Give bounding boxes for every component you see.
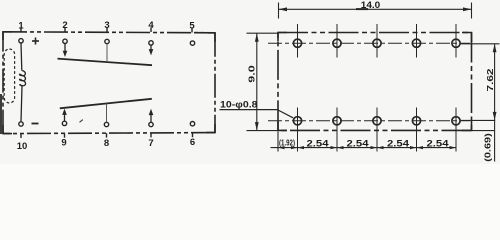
pin 9 terminal [62, 121, 66, 125]
svg-text:10-φ0.8: 10-φ0.8 [220, 99, 258, 109]
hole H4 [412, 39, 420, 47]
svg-text:2: 2 [62, 20, 67, 31]
coil polarity plus [32, 38, 39, 45]
dim 14.0 extension lines [278, 3, 280, 19]
hole H3 [373, 39, 381, 47]
svg-text:8: 8 [104, 138, 109, 149]
pin tick 10 [20, 134, 22, 138]
pin 5 terminal [190, 41, 194, 45]
bottom dim line [271, 147, 457, 149]
svg-text:4: 4 [148, 20, 154, 31]
pin tick 4 [150, 28, 152, 33]
hole H10 [452, 117, 460, 125]
svg-text:9.0: 9.0 [247, 65, 257, 83]
dim 14.0 line [279, 8, 472, 10]
hole H2 [333, 39, 341, 47]
arrow at 456 [450, 146, 457, 149]
dim 9.0 extension lines [247, 32, 279, 34]
common wire pin 3 [106, 44, 108, 62]
svg-text:6: 6 [190, 137, 195, 148]
pin 10 terminal [19, 122, 23, 126]
svg-text:7.62: 7.62 [485, 68, 495, 91]
relay case outline (schematic box, phantom line) [3, 32, 215, 134]
pin 4 terminal [149, 41, 153, 45]
coil polarity minus [32, 123, 39, 125]
svg-text:2.54: 2.54 [427, 138, 449, 148]
svg-text:14.0: 14.0 [361, 0, 381, 10]
svg-text:3: 3 [104, 20, 109, 31]
pin 3 terminal [105, 39, 109, 43]
scan shadow strip bottom-left [0, 94, 2, 134]
dim 9.0 line [256, 33, 258, 130]
outline corner caps [3, 32, 472, 134]
hole H5 [452, 39, 460, 47]
pin tick 6 [192, 133, 194, 137]
pin tick 2 [64, 28, 66, 33]
arrows at 416.5 [410, 146, 417, 149]
svg-text:7: 7 [148, 138, 153, 149]
svg-text:10: 10 [17, 141, 28, 152]
arrows at 377 [371, 146, 378, 149]
svg-text:5: 5 [189, 21, 195, 32]
stray ink speck [80, 120, 83, 123]
NO contact arrow pin 7 [150, 115, 152, 123]
movable contact bar (bottom pole) [60, 99, 152, 109]
svg-text:2.54: 2.54 [387, 138, 409, 148]
pin 6 terminal [190, 122, 194, 126]
common wire pin 8 [106, 104, 108, 123]
bottom dim extension (rect left edge) [277, 132, 279, 152]
pin tick 8 [106, 133, 108, 137]
svg-text:1: 1 [18, 20, 24, 31]
dim 7.62 line [494, 44, 496, 162]
dim 7.62 extension lines [461, 43, 500, 45]
coil body (dashed capsule) [4, 49, 14, 103]
hole vertical centre lines bottom / extension lines [298, 108, 457, 152]
arrows at 337 [331, 146, 338, 149]
leader diagonal to hole [278, 110, 293, 118]
coil L1 (3-loop winding) [19, 71, 25, 87]
NC contact arrow pin 9 [64, 115, 66, 122]
leader 10-phi0.8 underline [220, 109, 279, 111]
pin 1 terminal [19, 39, 23, 43]
svg-text:(1.92): (1.92) [279, 137, 295, 147]
pin tick 9 [64, 133, 66, 137]
svg-text:2.54: 2.54 [307, 138, 329, 148]
NO contact arrow pin 4 [150, 45, 152, 49]
coil wire bottom (coil to pin10) [21, 86, 22, 122]
hole H9 [412, 117, 420, 125]
svg-text:(0.69): (0.69) [483, 133, 493, 162]
hole H8 [373, 117, 381, 125]
pin 2 terminal [63, 39, 67, 43]
pin tick 3 [106, 28, 108, 33]
NC contact arrow pin 2 [64, 44, 66, 51]
pin 7 terminal [149, 122, 153, 126]
svg-text:9: 9 [61, 138, 66, 149]
centre line top row [268, 42, 470, 44]
hole H6 (bottom row) [293, 117, 301, 125]
coil wire top (pin1 to coil) [20, 43, 23, 71]
bottom edge extension to 7.62 line [472, 130, 495, 132]
pin tick 1 [20, 28, 22, 33]
hole H7 [333, 117, 341, 125]
arrows at 297.5 [291, 146, 298, 149]
arrows at 278 [278, 146, 285, 149]
footprint outline (phantom line) [278, 33, 472, 131]
svg-text:2.54: 2.54 [347, 138, 369, 148]
hole H1 (top row) [293, 39, 301, 47]
hole vertical centre lines top [298, 24, 457, 58]
centre line bottom row [268, 120, 470, 122]
pin 8 terminal [104, 122, 108, 126]
pin tick 7 [150, 133, 152, 137]
movable contact bar (top pole) [58, 59, 153, 66]
pin tick 5 [191, 28, 193, 33]
